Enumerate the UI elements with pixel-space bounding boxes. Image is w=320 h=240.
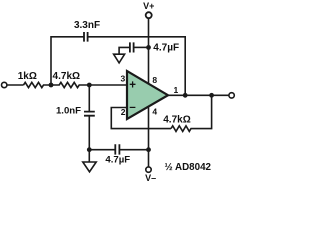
svg-text:V+: V+ xyxy=(143,1,154,11)
svg-text:8: 8 xyxy=(152,75,157,85)
svg-text:1kΩ: 1kΩ xyxy=(18,71,37,82)
svg-text:4.7µF: 4.7µF xyxy=(153,42,179,53)
svg-text:V–: V– xyxy=(145,173,156,183)
svg-text:–: – xyxy=(129,101,136,113)
svg-text:2: 2 xyxy=(121,107,126,117)
svg-text:4: 4 xyxy=(152,106,157,116)
svg-text:4.7µF: 4.7µF xyxy=(105,155,130,166)
svg-text:3: 3 xyxy=(120,73,125,83)
svg-text:½ AD8042: ½ AD8042 xyxy=(165,162,212,173)
svg-text:+: + xyxy=(129,79,136,91)
svg-text:4.7kΩ: 4.7kΩ xyxy=(163,115,190,126)
svg-text:1.0nF: 1.0nF xyxy=(56,105,81,116)
svg-text:1: 1 xyxy=(174,85,179,95)
svg-text:3.3nF: 3.3nF xyxy=(74,20,100,31)
svg-text:4.7kΩ: 4.7kΩ xyxy=(53,71,80,82)
